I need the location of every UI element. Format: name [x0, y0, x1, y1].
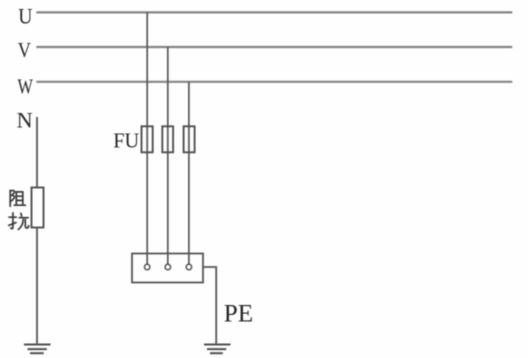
svg-text:W: W [18, 74, 34, 98]
fuse FU phase V body [162, 126, 173, 152]
svg-text:N: N [17, 107, 33, 132]
wire: phase bus V [36, 46, 512, 48]
equipment terminal box [132, 254, 203, 283]
fuse FU phase W body [184, 126, 195, 152]
svg-text:U: U [18, 3, 32, 28]
terminal node W [186, 264, 191, 269]
fuse FU phase U body [142, 126, 153, 152]
svg-text:V: V [18, 38, 31, 62]
impedance (zu-kang) body [32, 188, 44, 228]
wire: PE conductor from box to earth [203, 267, 216, 344]
wire: phase bus W [36, 81, 512, 83]
wire: V phase drop to fuse and terminal [167, 47, 169, 264]
terminal node U [145, 264, 150, 269]
wire: W phase drop to fuse and terminal [188, 82, 190, 264]
wire: neutral conductor lower segment [36, 228, 38, 345]
wire: neutral conductor upper segment [36, 117, 38, 188]
wire: U phase drop to fuse and terminal [146, 12, 148, 264]
terminal node V [165, 264, 170, 269]
impedance label char ZU (阻) [10, 190, 25, 206]
impedance label char KANG (抗) [9, 213, 29, 230]
ground: PE earthing electrode [204, 345, 231, 354]
ground: neutral earthing electrode [24, 345, 51, 354]
svg-text:FU: FU [113, 128, 139, 152]
wire: phase bus U [36, 11, 512, 13]
svg-text:PE: PE [224, 301, 253, 328]
